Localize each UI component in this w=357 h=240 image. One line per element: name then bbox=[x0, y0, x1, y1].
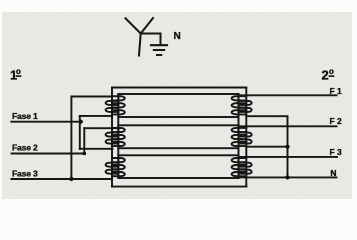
svg-text:o: o bbox=[329, 67, 334, 76]
junction Fase3/V1 bbox=[69, 177, 73, 181]
core limb right (vertical through gaps) bbox=[238, 94, 240, 178]
svg-text:F 1: F 1 bbox=[330, 86, 343, 96]
winding P2 (left coil, core 2) bbox=[106, 128, 125, 146]
core 3 bbox=[118, 155, 238, 178]
top interconnect wire bbox=[112, 87, 246, 89]
wire V1 vertical bbox=[70, 97, 72, 180]
ground bar 2 bbox=[154, 49, 164, 51]
svg-text:N: N bbox=[174, 31, 181, 42]
svg-text:Fase 1: Fase 1 bbox=[12, 111, 38, 121]
wire V2 vertical bbox=[79, 116, 81, 149]
junction Fase2/V3 bbox=[83, 152, 87, 156]
wire V3 top horizontal bbox=[84, 127, 119, 129]
wire Fase 2 bbox=[12, 153, 85, 155]
wire N bbox=[239, 176, 337, 178]
winding P3 (left coil, core 3) bbox=[106, 158, 125, 176]
winding P1 (left coil, core 1) bbox=[106, 96, 125, 114]
wire V2 bottom horizontal bbox=[80, 148, 113, 150]
wye symbol arm up-left bbox=[126, 18, 141, 33]
wire V3 vertical bbox=[83, 128, 85, 153]
wye symbol arm down bbox=[139, 34, 141, 56]
wye symbol arm up-right bbox=[141, 18, 153, 34]
wire V1 top horizontal bbox=[71, 96, 112, 98]
junction wireB/vertical bbox=[285, 145, 289, 149]
svg-text:Fase 3: Fase 3 bbox=[12, 169, 38, 179]
svg-text:o: o bbox=[16, 67, 21, 76]
left rail bbox=[111, 88, 113, 187]
wire from wye centre to ground bbox=[141, 34, 161, 46]
junction Fase1/V2 bbox=[79, 120, 83, 124]
svg-text:Fase 2: Fase 2 bbox=[12, 143, 38, 153]
wire F1 bbox=[239, 94, 337, 96]
core limb left (vertical through gaps) bbox=[117, 94, 119, 178]
wire Fase 1 bbox=[11, 121, 81, 123]
junction N/vertical bbox=[285, 175, 289, 179]
wire A top-right link bbox=[246, 116, 287, 177]
svg-text:2: 2 bbox=[322, 68, 329, 83]
winding S2 (right coil, core 2) bbox=[232, 128, 252, 146]
core 1 bbox=[118, 94, 238, 117]
wire F2 bbox=[239, 125, 337, 127]
bottom interconnect wire bbox=[112, 186, 246, 188]
wire Fase 3 bbox=[12, 178, 112, 180]
wire F3 bbox=[239, 156, 338, 158]
svg-text:F 2: F 2 bbox=[330, 116, 343, 126]
right rail bbox=[245, 88, 247, 187]
wire V2 top horizontal bbox=[80, 115, 112, 117]
winding S1 (right coil, core 1) bbox=[232, 96, 252, 114]
ground bar 3 bbox=[157, 54, 161, 56]
winding S3 (right coil, core 3) bbox=[232, 158, 252, 176]
ground bar 1 bbox=[151, 44, 167, 46]
svg-text:F 3: F 3 bbox=[330, 147, 343, 157]
wire B mid-right link bbox=[246, 146, 287, 148]
svg-text:N: N bbox=[330, 168, 336, 178]
core 2 bbox=[118, 125, 238, 148]
